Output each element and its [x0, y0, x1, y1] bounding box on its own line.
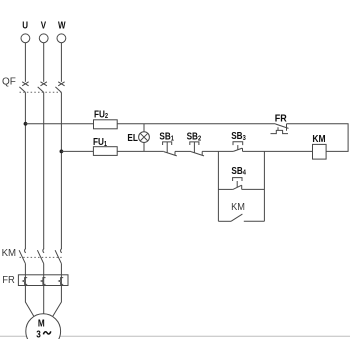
breaker QF pole 1: [19, 82, 28, 93]
wire L2 upper: [43, 43, 45, 82]
wire L3 main: [60, 92, 62, 248]
wire L3 lower: [60, 264, 62, 275]
breaker QF pole 2: [38, 82, 47, 93]
motor feed wire 1: [25, 286, 33, 317]
pushbutton SB4 (NO): [218, 178, 264, 190]
wire L1 main: [24, 92, 26, 248]
motor M circle: [26, 314, 61, 339]
breaker QF pole 3: [55, 82, 64, 93]
heater element 1: [23, 275, 27, 286]
wire rail1: [117, 123, 275, 125]
pushbutton SB1 (NC): [163, 142, 177, 156]
wire rail2 seg1: [117, 150, 164, 152]
wire L3 upper: [60, 43, 62, 82]
wire L2 main: [43, 92, 45, 248]
svg-text:M: M: [38, 318, 45, 329]
terminal V: [39, 34, 48, 43]
contactor KM pole 1: [19, 249, 26, 264]
wire to FU2: [25, 123, 93, 125]
motor feed wire 2: [43, 286, 45, 314]
svg-text:3: 3: [36, 329, 41, 339]
relay FR heater box: [18, 275, 68, 286]
coil KM: [313, 144, 327, 159]
svg-text:KM: KM: [231, 201, 245, 213]
wire L1 upper: [24, 43, 26, 82]
node A branch vertical: [217, 151, 219, 221]
svg-text:KM: KM: [312, 133, 325, 144]
contactor KM pole 2: [37, 249, 44, 264]
contactor KM pole 3: [55, 249, 62, 264]
contact FR (NC thermal): [271, 124, 289, 134]
QF linkage dashed: [20, 91, 62, 93]
svg-text:FR: FR: [275, 113, 287, 125]
terminal U: [21, 34, 30, 43]
bottom grey rule: [0, 335, 350, 337]
svg-text:V: V: [41, 20, 46, 31]
node tap FU1: [60, 150, 64, 154]
svg-text:W: W: [58, 20, 66, 31]
wire rail2 seg3: [202, 150, 233, 152]
lamp EL: [139, 124, 150, 152]
terminal W: [57, 34, 66, 43]
wire L1 lower: [24, 264, 26, 275]
contact KM aux (NO self-hold): [218, 214, 264, 221]
fuse FU1: [93, 147, 117, 156]
wire rail1 right + corner: [287, 124, 349, 152]
motor feed wire 3: [53, 286, 62, 317]
wire to FU1: [61, 150, 93, 152]
svg-text:FR: FR: [2, 274, 15, 286]
svg-text:U: U: [22, 20, 28, 31]
pushbutton SB3 (NO): [233, 142, 243, 152]
KM linkage dashed: [20, 256, 63, 258]
heater element 3: [59, 275, 63, 286]
svg-text:QF: QF: [2, 76, 16, 87]
wire rail2 seg4: [243, 150, 313, 152]
fuse FU2: [94, 120, 118, 129]
node tap FU2: [24, 122, 28, 126]
pushbutton SB2 (NC): [190, 142, 204, 156]
svg-text:EL: EL: [127, 132, 138, 143]
wire L2 lower: [43, 264, 45, 275]
wire rail2 seg2: [175, 150, 191, 152]
svg-text:KM: KM: [2, 248, 16, 259]
heater element 2: [41, 275, 45, 286]
node B branch vertical: [263, 151, 265, 221]
